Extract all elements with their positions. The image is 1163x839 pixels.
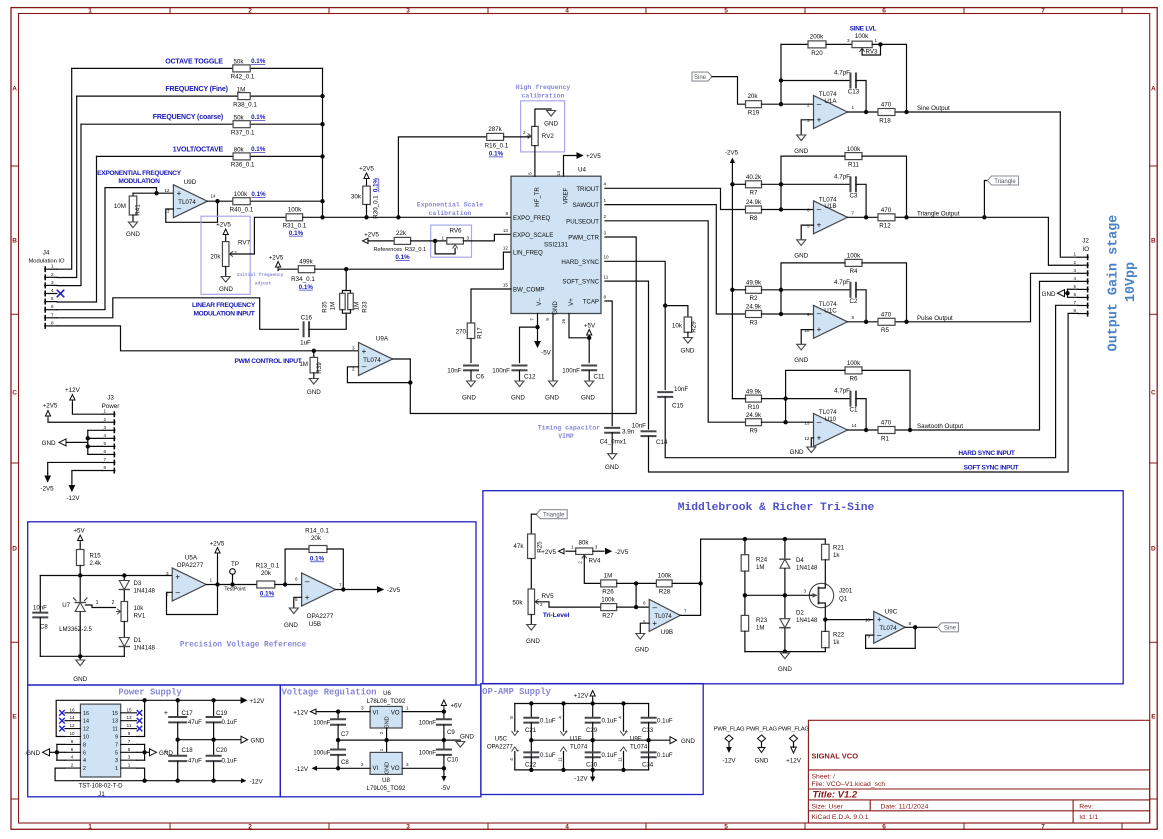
svg-text:3: 3 [604,230,607,235]
svg-text:D: D [1151,545,1156,552]
resistor R23 (1M) [741,595,768,651]
svg-text:200k: 200k [810,33,824,40]
svg-text:4: 4 [51,288,54,293]
wire RV5 wiper to R27 [536,602,600,607]
svg-text:R16_0.1: R16_0.1 [485,142,509,149]
ground at U9B + input [635,623,649,653]
svg-text:1: 1 [88,823,92,830]
svg-text:12: 12 [164,188,170,193]
svg-text:B: B [12,237,17,244]
svg-text:47k: 47k [513,543,524,550]
svg-text:6: 6 [643,601,646,606]
svg-text:R31_0.1: R31_0.1 [283,223,307,230]
power -2V5 from J3 pin 7 [40,462,102,492]
wire RV6 to EXPO_SCALE [463,234,511,241]
wire U9A feedback loop [347,367,412,385]
svg-text:SOFT SYNC INPUT: SOFT SYNC INPUT [964,464,1019,471]
svg-text:A: A [1151,85,1156,92]
ground above RV2 [544,111,558,128]
net flag Triangle (top) [984,176,1018,217]
resistor R21 (1k) [822,539,845,584]
power flag +12V [778,726,809,764]
svg-text:R6: R6 [850,376,859,383]
svg-text:6: 6 [807,208,810,213]
svg-text:U5B: U5B [309,621,321,628]
ground flag to J2 pins 5-6 [1042,289,1078,298]
ground below C4 [605,454,619,471]
wire mid GND rail (power supply) [176,738,242,742]
svg-text:49.9k: 49.9k [746,280,762,287]
svg-text:4: 4 [71,755,74,760]
svg-text:7: 7 [339,583,342,588]
svg-text:KiCad E.D.A. 9.0.1: KiCad E.D.A. 9.0.1 [812,814,869,821]
wire R11 feedback loop [781,156,909,219]
wire J1 pin 9 to +12V rail [137,700,145,736]
svg-text:+2V5: +2V5 [364,232,379,239]
svg-text:3: 3 [103,425,106,430]
svg-text:6: 6 [882,7,886,14]
wire R8 row to op-amp input [762,207,814,211]
svg-text:470: 470 [881,312,892,319]
svg-text:Precision Voltage Reference: Precision Voltage Reference [180,642,307,650]
svg-text:–: – [817,99,822,108]
svg-text:5: 5 [103,441,106,446]
svg-text:U9A: U9A [376,336,389,343]
svg-text:C16: C16 [301,315,313,322]
resistor R6 (100k) [845,360,862,383]
svg-text:6: 6 [295,577,298,582]
ground below reference [73,656,87,683]
svg-text:1: 1 [88,7,92,14]
wire U9A output to PWM_CTR [393,237,637,414]
svg-text:10Vpp: 10Vpp [1124,262,1139,302]
svg-text:0.1%: 0.1% [395,254,410,261]
ground flag to J1 pins 7,5,3 [137,744,174,760]
wire reference bottom rail [40,655,124,657]
capacitor C10 (100nF) [419,740,459,768]
svg-text:3: 3 [406,762,409,767]
svg-text:0.1uF: 0.1uF [657,752,673,759]
svg-text:14: 14 [556,171,561,177]
svg-text:Rev:: Rev: [1079,804,1093,811]
svg-text:3: 3 [1073,268,1076,273]
capacitor C33 (0.1uF) [642,704,673,758]
svg-text:RV1: RV1 [134,613,146,620]
ground below RV7 [219,267,233,294]
svg-text:5: 5 [528,172,533,175]
resistor R4 (100k) [845,253,862,276]
svg-text:1: 1 [115,766,118,772]
svg-text:Q1: Q1 [839,596,848,603]
capacitor C15 (10nF) [658,386,688,410]
svg-text:+12V: +12V [250,698,266,705]
svg-text:+6V: +6V [450,703,462,710]
svg-text:13: 13 [503,228,509,233]
power -2V5 right of RV4 [593,549,629,556]
svg-text:0.1uF: 0.1uF [540,752,556,759]
svg-text:2: 2 [523,130,526,135]
svg-text:D: D [12,545,17,552]
svg-text:J3: J3 [107,395,114,402]
svg-text:7: 7 [1073,300,1076,305]
svg-text:+: + [817,115,822,124]
svg-text:3: 3 [467,235,470,240]
svg-text:adjust: adjust [255,281,272,287]
svg-text:+: + [177,189,182,198]
potentiometer RV1 (10k) [117,602,146,638]
power +5V arrow [584,323,596,339]
svg-text:PWR_FLAG: PWR_FLAG [746,726,777,732]
wire RV7 wiper to summing node [231,217,286,254]
wire U1A output row [848,111,1061,113]
svg-text:R17: R17 [477,327,484,339]
svg-text:47uF: 47uF [188,719,202,726]
svg-text:Pulse Output: Pulse Output [917,315,953,322]
svg-text:C2: C2 [850,298,859,305]
power +12V into U6 [293,709,370,716]
potentiometer RV3 (100k) [847,33,878,56]
svg-text:49.9k: 49.9k [746,388,762,395]
svg-text:J1: J1 [98,791,105,798]
svg-text:2: 2 [361,762,364,767]
wire C2 to output node [856,290,868,324]
svg-text:4: 4 [565,823,569,830]
regulator U6 (L78L06_TO92) [361,690,409,734]
label FREQUENCY (coarse) [153,114,223,121]
wire bottom rail to ground [745,649,825,673]
wire U5B output to -2V5 [336,587,401,594]
wire exp-fm input from J4 pin 6 [57,188,173,310]
svg-text:470: 470 [881,102,892,109]
svg-text:GND: GND [511,394,525,401]
svg-text:8: 8 [103,465,106,470]
svg-text:-5V: -5V [541,350,552,357]
svg-text:GND: GND [307,389,321,396]
svg-text:3: 3 [803,589,806,594]
svg-text:U6: U6 [383,690,391,697]
capacitor C17 (47uF polarized) [164,700,202,739]
power flag -12V [714,726,745,764]
svg-text:2: 2 [604,214,607,219]
wire SAWOUT to R3 [605,205,746,314]
svg-text:VO: VO [391,711,400,717]
svg-text:2: 2 [248,823,252,830]
svg-text:GND: GND [635,647,649,654]
resistor R2 (49.9k) [746,280,763,303]
svg-text:0.1%: 0.1% [251,58,266,65]
power -12V arrow (power supply) [241,778,264,785]
svg-text:1M: 1M [330,302,337,311]
svg-text:GND: GND [1042,291,1056,298]
svg-text:U1A: U1A [824,98,837,105]
svg-text:GND: GND [73,676,87,683]
svg-text:8: 8 [71,739,74,744]
svg-text:GND: GND [42,440,56,447]
wire sine output to J2 pin 1 [1060,112,1078,257]
resistor R7 (40.2k) [746,174,763,197]
svg-text:GND: GND [26,750,40,757]
resistor R24 (1M) [741,539,768,595]
svg-text:100k: 100k [288,207,302,214]
svg-text:15: 15 [112,711,118,717]
svg-text:+: + [817,325,822,334]
svg-text:3: 3 [847,38,850,43]
svg-text:C8: C8 [40,623,48,630]
svg-text:+: + [624,730,628,736]
svg-text:D2: D2 [796,610,804,617]
label OCTAVE TOGGLE [165,58,223,65]
svg-text:80k: 80k [234,147,245,154]
svg-text:A: A [12,85,17,92]
svg-text:14: 14 [83,719,89,725]
svg-text:C: C [1151,389,1156,396]
svg-text:1M: 1M [604,573,613,580]
svg-text:Size: User: Size: User [812,804,844,811]
connector J4 Modulation IO [28,250,65,329]
svg-text:1: 1 [1073,252,1076,257]
svg-text:30k: 30k [351,194,362,201]
wire BW_COMP to R17 [471,289,511,323]
svg-text:OPA2277: OPA2277 [487,743,514,750]
connector J2 IO [1073,238,1089,316]
label HARD SYNC INPUT [958,450,1015,457]
potentiometer RV4 (80k) [571,539,601,564]
resistor R26 (1M) [601,573,617,596]
wire HARD_SYNC to C15 [605,261,667,389]
note Output Gain stage 10Vpp [1107,215,1140,352]
svg-text:R10: R10 [748,404,760,411]
wire R34 to LIN_FREQ [315,252,511,271]
svg-text:C34: C34 [642,762,654,769]
resistor R1 (470) [878,420,895,443]
svg-text:3: 3 [166,571,169,576]
svg-text:-2V5: -2V5 [40,485,54,492]
wire C16 to R35/R33 pair [309,317,346,329]
svg-text:D4: D4 [796,557,804,564]
power -12V from J3 pin 8 [66,471,102,502]
svg-text:100nF: 100nF [313,720,331,727]
resistor R35 (1M) [322,269,347,317]
svg-text:3: 3 [51,280,54,285]
wire C15 to hard sync input line [665,305,1078,457]
svg-text:L78L06_TO92: L78L06_TO92 [367,698,406,705]
wire RV3 to output feedback vertical [872,44,909,114]
svg-text:TP: TP [231,561,239,568]
potentiometer RV5 (50k) [512,589,554,615]
label Pulse Output [917,315,953,322]
no-connect X marks on J1 unused pins [60,711,142,731]
svg-text:Power Supply: Power Supply [118,688,182,698]
svg-text:4.7pF: 4.7pF [834,279,850,286]
svg-text:+2V5: +2V5 [216,222,231,229]
wire J4 pin risers to mixing resistors [57,68,97,302]
svg-text:12: 12 [69,723,75,728]
svg-text:R8: R8 [750,215,759,222]
svg-text:Output Gain stage: Output Gain stage [1107,215,1122,352]
svg-text:R5: R5 [881,327,890,334]
svg-text:9: 9 [115,735,118,741]
test point TP [224,561,246,592]
wire zener adj to RV1 wiper [86,600,116,608]
svg-text:R3: R3 [750,319,759,326]
svg-text:V–: V– [536,298,543,306]
resistor R16_0.1 (287k) [398,126,531,217]
svg-text:Triangle: Triangle [543,513,565,519]
wire V- to -5V and C12 [520,314,540,363]
svg-text:J4: J4 [43,250,50,257]
svg-text:-12V: -12V [295,766,309,773]
svg-text:R4: R4 [850,268,859,275]
svg-text:GND: GND [581,394,595,401]
diode D4 (1N4148) [780,539,818,595]
svg-text:R37_0.1: R37_0.1 [231,130,255,137]
svg-text:1N4148: 1N4148 [134,588,156,595]
wire R36_0.1 row [97,155,323,157]
svg-text:+12V: +12V [293,709,309,716]
svg-text:LIN_FREQ: LIN_FREQ [513,250,543,257]
svg-text:GND: GND [526,638,540,645]
resistor R28 (100k) [617,573,703,596]
svg-text:J201: J201 [839,588,853,595]
svg-text:1M: 1M [756,625,764,632]
svg-text:3: 3 [128,755,131,760]
wire R6 feedback loop [786,370,913,432]
power -2V5 rail [725,150,739,399]
capacitor C13 (4.7pF) [781,70,868,115]
resistor R20 (200k) [781,33,852,57]
svg-text:4: 4 [558,716,563,719]
power +2V5 feeding R32 [363,232,395,244]
svg-text:HF_TR: HF_TR [534,187,541,207]
svg-text:16: 16 [69,707,75,712]
svg-text:0.1%: 0.1% [299,284,314,291]
svg-text:R32_0.1: R32_0.1 [405,247,426,253]
svg-text:14: 14 [852,423,858,428]
section box Voltage Regulation [280,685,481,797]
svg-text:BW_COMP: BW_COMP [513,287,545,294]
wire U10 output row [848,429,911,431]
wire C3 to output node [856,184,868,219]
svg-text:4.7pF: 4.7pF [834,70,850,77]
svg-text:IO: IO [1082,246,1089,253]
svg-text:10: 10 [69,731,75,736]
svg-text:SSI2131: SSI2131 [544,242,569,249]
svg-text:R1: R1 [881,435,890,442]
op-amp power pins U9E (TL074) [618,704,648,770]
svg-text:Sawtooth Output: Sawtooth Output [917,423,963,430]
ground below U4 [545,381,559,401]
note box Initial frequency adjust [201,216,284,294]
svg-text:3: 3 [807,118,810,123]
capacitor C21 (0.1uF) [524,704,556,758]
svg-text:VIMP: VIMP [558,433,574,440]
svg-text:5: 5 [724,7,728,14]
svg-text:TCAP: TCAP [583,299,599,306]
svg-text:6: 6 [83,750,86,756]
op-amp U5B (OPA2277) [295,573,342,628]
svg-text:0.1uF: 0.1uF [602,718,618,725]
diode D2 (1N4148) [780,595,818,651]
svg-text:0.1%: 0.1% [260,591,275,598]
svg-text:0.1%: 0.1% [489,151,504,158]
wire R42_0.1 row [72,67,323,69]
resistor R18 (470) [878,102,895,125]
svg-text:16: 16 [83,711,89,717]
svg-text:R14_0.1: R14_0.1 [305,528,329,535]
svg-text:C20: C20 [216,747,228,754]
wire U1B output row [848,216,907,218]
capacitor C20 (0.1uF) [207,740,238,781]
svg-text:2.4k: 2.4k [90,560,102,567]
svg-text:+: + [175,572,180,581]
svg-text:GND: GND [794,148,808,155]
capacitor C1 (4.7pF) [834,388,858,414]
svg-text:R21: R21 [833,545,845,552]
svg-text:GND: GND [794,357,808,364]
wire R9 row to op-amp input [762,420,814,424]
svg-text:+2V5: +2V5 [269,255,284,262]
diode D3 (1N4148) [119,576,155,602]
svg-text:+12V: +12V [574,693,590,700]
wire U9B output to top rail [680,537,825,616]
wire op-amp supply mid GND rail [529,737,695,745]
svg-text:15: 15 [126,707,132,712]
svg-text:PWM CONTROL INPUT: PWM CONTROL INPUT [235,358,302,365]
wire summing bus vertical [320,68,324,219]
svg-text:PULSEOUT: PULSEOUT [566,218,599,225]
svg-text:11: 11 [112,727,118,733]
svg-text:GND: GND [385,716,391,728]
svg-text:File: VCO–V1.kicad_sch: File: VCO–V1.kicad_sch [812,781,886,788]
svg-text:VI: VI [373,766,379,772]
svg-text:SAWOUT: SAWOUT [572,202,599,209]
svg-text:C8: C8 [341,759,349,766]
svg-text:HARD SYNC INPUT: HARD SYNC INPUT [958,450,1015,457]
svg-text:2: 2 [51,272,54,277]
svg-text:EXPO_FREQ: EXPO_FREQ [513,215,551,222]
svg-text:8: 8 [909,621,912,626]
svg-text:+2V5: +2V5 [586,153,601,160]
svg-text:Sine Output: Sine Output [917,105,950,112]
svg-text:6: 6 [103,449,106,454]
wire R3 row to op-amp input [762,312,814,316]
svg-text:R7: R7 [750,190,759,197]
svg-text:U1E: U1E [570,735,582,742]
capacitor C30 (0.1uF) [586,752,618,770]
svg-text:1: 1 [441,235,444,240]
svg-text:8: 8 [509,716,514,719]
svg-text:8: 8 [83,742,86,748]
capacitor C22 (0.1uF) [524,752,556,770]
capacitor C7 (100nF) [313,712,349,741]
ground flag right (power supply) [241,736,265,744]
svg-text:1M: 1M [299,361,308,368]
svg-text:4: 4 [509,758,514,761]
svg-text:-2V5: -2V5 [615,549,629,556]
svg-text:C33: C33 [642,727,654,734]
svg-text:U1C: U1C [824,308,837,315]
svg-text:Id: 1/1: Id: 1/1 [1079,814,1098,821]
svg-text:1M: 1M [354,302,361,311]
svg-text:80k: 80k [578,539,589,546]
capacitor C34 (0.1uF) [642,752,673,770]
svg-text:R18: R18 [879,117,891,124]
svg-text:1: 1 [51,264,54,269]
svg-text:11: 11 [618,757,623,762]
label LINEAR FREQUENCY MODULATION INPUT [192,302,256,317]
svg-text:B: B [1151,237,1156,244]
svg-text:Voltage Regulation: Voltage Regulation [281,688,376,698]
